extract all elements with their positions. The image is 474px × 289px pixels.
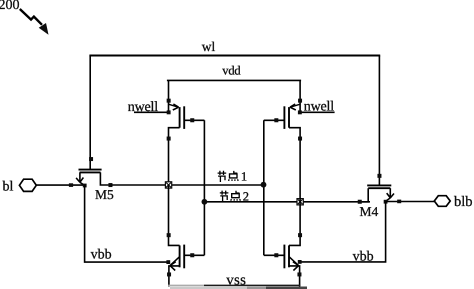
nmos N2 channel bar bbox=[288, 245, 290, 267]
wire P1 gate to cross-couple bbox=[184, 119, 204, 121]
wire vbb left bbox=[85, 185, 169, 262]
scan artifact gray band under vss rail bbox=[170, 287, 247, 289]
wire vdd left vertical to P1 source bbox=[168, 80, 170, 112]
nmos N1 bulk arrow bbox=[170, 257, 179, 271]
nmos N2 bulk arrow bbox=[289, 257, 298, 271]
pmos P1 gate bar bbox=[183, 106, 185, 129]
junction dot nwell left bbox=[167, 110, 171, 114]
M5 right leg bbox=[100, 172, 110, 185]
svg-text:1: 1 bbox=[241, 170, 247, 184]
junction dot M5 right bbox=[108, 183, 112, 187]
junction dot node 2 to left inverter gates bbox=[202, 199, 208, 205]
wire N2 gate to cross-couple bbox=[264, 254, 285, 256]
access transistor M5 gate bar bbox=[79, 169, 102, 171]
pmos P2 gate bar bbox=[283, 106, 285, 129]
wire vss rail bbox=[204, 284, 300, 286]
M5 left leg bbox=[79, 172, 81, 182]
wire wl rail bbox=[89, 55, 380, 57]
wire vdd rail bbox=[167, 79, 301, 81]
junction dot M5 bulk bbox=[83, 184, 87, 188]
svg-text:vbb: vbb bbox=[91, 247, 112, 262]
junction dot node 1 to right inverter gates bbox=[261, 182, 267, 188]
junction dot N2 source bbox=[297, 272, 301, 276]
wire vbb right bbox=[300, 202, 386, 262]
wire node 2 bbox=[204, 201, 370, 203]
wire nwell right bbox=[300, 111, 335, 113]
nmos N1 drain bend bbox=[169, 185, 180, 245]
svg-text:wl: wl bbox=[202, 39, 216, 54]
junction dot bl bbox=[69, 183, 73, 187]
pmos P1 channel bar bbox=[179, 107, 181, 128]
junction dot blb bbox=[397, 200, 401, 204]
wire wl right vertical to M4 gate bbox=[378, 56, 380, 186]
wire P2 gate to cross-couple bbox=[264, 119, 285, 121]
junction dot M4 gate bbox=[377, 174, 381, 178]
M4 left leg bbox=[360, 188, 369, 202]
wire N1 gate to cross-couple bbox=[184, 254, 204, 256]
nmos N1 channel bar bbox=[179, 245, 181, 267]
contact symbol node 2 / right inverter output bbox=[297, 199, 303, 205]
junction dot P1 drain bbox=[167, 137, 171, 141]
junction dot P2 gate wire bbox=[274, 118, 278, 122]
nmos N2 gate bar bbox=[283, 245, 285, 269]
svg-text:bl: bl bbox=[3, 180, 14, 195]
contact symbol node 1 / left inverter output bbox=[165, 182, 171, 188]
M5 source arrow bbox=[76, 178, 85, 186]
M4 right leg bbox=[389, 188, 391, 198]
svg-text:M4: M4 bbox=[360, 204, 379, 219]
wire cross-couple right vertical (gate of right inverter to node 1) bbox=[263, 120, 265, 255]
junction dot M4 left bbox=[358, 200, 362, 204]
svg-text:M5: M5 bbox=[95, 187, 114, 202]
junction dot M5 gate bbox=[89, 157, 93, 161]
nmos N2 source bend bbox=[289, 266, 300, 287]
junction dot vbb left bbox=[166, 260, 170, 264]
junction dot P2 drain bbox=[298, 137, 302, 141]
svg-text:vdd: vdd bbox=[222, 64, 241, 78]
nmos N1 gate bar bbox=[183, 245, 185, 269]
wire node 1 bbox=[111, 184, 264, 186]
wire bl bbox=[36, 184, 84, 186]
wire vdd right vertical to P2 source bbox=[299, 80, 301, 112]
leader arrow from 200 bbox=[20, 9, 48, 33]
junction dot on P1 source bbox=[167, 99, 171, 103]
junction dot P1 gate wire bbox=[190, 118, 194, 122]
junction dot N1 source bbox=[167, 272, 171, 276]
port blb hexagon bbox=[434, 196, 450, 207]
junction dot vbb right bbox=[298, 260, 302, 264]
pmos P1 drain bend bbox=[169, 128, 180, 185]
pmos P2 drain bend bbox=[289, 128, 300, 185]
port bl hexagon bbox=[19, 179, 36, 191]
pmos P2 source arrow bbox=[290, 104, 300, 110]
pmos P2 channel bar bbox=[288, 107, 290, 128]
access transistor M4 gate bar bbox=[367, 184, 391, 186]
junction dot N2 gate wire bbox=[274, 253, 278, 257]
pmos P1 source arrow bbox=[169, 104, 179, 110]
wire wl left vertical to M5 gate bbox=[89, 56, 91, 170]
junction dot N1 drain bbox=[167, 233, 171, 237]
junction dot nwell right bbox=[298, 110, 302, 114]
access transistor M5 channel bar bbox=[80, 171, 101, 173]
svg-text:blb: blb bbox=[454, 194, 473, 210]
junction dot on P2 source bbox=[298, 99, 302, 103]
nmos N1 source bend bbox=[169, 266, 180, 287]
nmos N2 drain bend bbox=[289, 185, 300, 245]
junction dot N2 drain bbox=[298, 233, 302, 237]
node 2 label bbox=[220, 190, 249, 204]
junction dot M4 bulk bbox=[384, 200, 388, 204]
wire nwell left bbox=[134, 111, 169, 113]
svg-text:200: 200 bbox=[0, 0, 20, 13]
M4 source arrow bbox=[386, 193, 394, 201]
wire blb bbox=[386, 201, 435, 203]
access transistor M4 channel bar bbox=[368, 187, 390, 189]
junction dot N1 gate wire bbox=[190, 253, 194, 257]
wire vss rail faint left part bbox=[168, 284, 204, 286]
wire cross-couple left vertical (gate of left inverter to node 2) bbox=[203, 120, 205, 255]
node 1 label bbox=[218, 170, 248, 184]
